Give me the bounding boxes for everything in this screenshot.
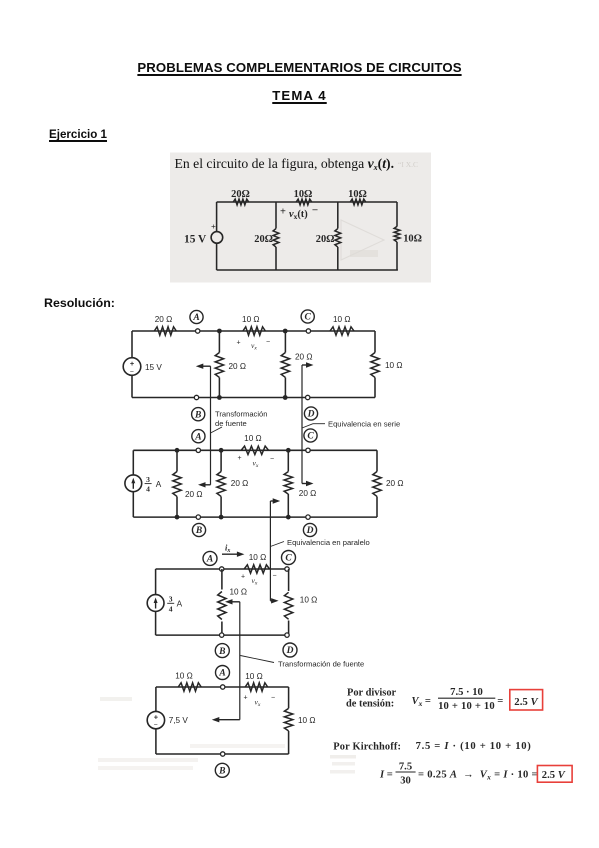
svg-text:Transformación de fuente: Transformación de fuente [278,660,364,669]
svg-text:20Ω: 20Ω [254,234,273,245]
junction dots x288 c2 [286,448,291,453]
svg-text:10 Ω: 10 Ω [245,672,263,681]
junction dots c1 bottom [217,395,222,400]
svg-text:C: C [307,432,314,442]
node label C between c1-c2 [304,429,317,442]
arrow left c4 [216,719,240,721]
svg-text:D: D [306,526,314,536]
svg-text:Equivalencia en serie: Equivalencia en serie [328,419,400,428]
wire stub v-res2 c1 [284,331,286,353]
resistor 20ohm top-left (statement) [233,199,249,205]
svg-text:+: + [241,574,245,581]
arrow ix c3 [222,553,241,555]
svg-text:vx(t): vx(t) [289,209,308,221]
circuit4 bottom wire [156,753,289,755]
svg-text:20Ω: 20Ω [231,189,250,200]
ghost text left of equations [330,755,356,759]
svg-text:B: B [195,526,202,536]
resistor 20ohm vertical-2 c1 [281,353,289,378]
svg-text:4: 4 [169,604,173,613]
node B open circle c1 bottom [194,395,198,399]
connector line c3-c4 [239,602,241,720]
wire: statement top [217,201,397,203]
svg-text:3: 3 [146,475,150,484]
svg-text:+: + [130,359,135,368]
text Equivalencia en paralelo [270,542,284,547]
wire: statement left [216,202,218,232]
svg-text:20 Ω: 20 Ω [155,315,173,324]
svg-text:vx: vx [252,576,258,586]
svg-text:10 + 10 + 10: 10 + 10 + 10 [438,701,495,712]
wire stubs vres x221 c2 [220,450,222,471]
node label A c1 [190,310,203,323]
resistor R 20ohm top-left c1 [154,327,176,335]
junction dots x177 c2 [175,448,180,453]
wire stubs vres x177 c2 [176,450,178,471]
svg-text:A: A [192,313,199,323]
wire stubs vres x288 c2 [287,450,289,471]
resistor 10ohm top c3 [244,565,269,573]
svg-text:20 Ω: 20 Ω [295,353,313,362]
wire: statement bottom [217,269,398,271]
node A open circle c1 top [196,329,200,333]
svg-text:10 Ω: 10 Ω [244,434,262,443]
svg-text:−: − [266,339,270,346]
svg-text:20 Ω: 20 Ω [231,479,249,488]
connector line c2-c3 [269,501,271,601]
resistor 20ohm right c2 [373,472,381,497]
resistor 10ohm right c4 [284,708,292,730]
node label B below c2 [192,523,205,536]
node label A above c3 [203,551,217,565]
svg-text:10Ω: 10Ω [348,189,367,200]
red box answer 2 [537,766,572,783]
svg-text:10Ω: 10Ω [403,234,422,245]
red box answer 1 [510,690,543,710]
problem statement figure background [170,153,431,283]
node label B between c1-c2 [192,408,205,421]
svg-text:7.5 · 10: 7.5 · 10 [450,687,483,698]
svg-text:C: C [305,313,312,323]
leader to de fuente [211,427,223,433]
current source 3/4 A c3 [147,595,164,612]
arrow left c2 [202,484,211,486]
svg-text:vx: vx [255,698,261,708]
svg-text:10 Ω: 10 Ω [230,587,248,596]
junction dot c1 top x219 [217,329,222,334]
svg-text:7.5 = I · (10 + 10 + 10): 7.5 = I · (10 + 10 + 10) [416,741,532,752]
circuit1 right wire [374,331,376,353]
svg-text:D: D [286,646,294,656]
wire: statement right [396,202,398,227]
svg-text:vx: vx [253,459,259,469]
svg-text:3: 3 [169,595,173,604]
svg-text:Por divisor: Por divisor [347,688,397,699]
svg-text:+: + [211,222,216,232]
svg-text:7,5 V: 7,5 V [169,716,189,725]
arrow left c3 (source transformation) [229,601,240,603]
connector line right c1-c2 [301,365,303,484]
resistor 20ohm v1 c2 [173,472,181,497]
svg-text:+: + [154,713,159,722]
svg-text:−: − [130,368,134,375]
svg-text:Por Kirchhoff:: Por Kirchhoff: [333,741,401,752]
svg-text:15 V: 15 V [145,363,162,372]
svg-text:−: − [270,456,274,463]
svg-text:=: = [497,696,503,707]
node open circles x198 c2 [196,448,200,452]
resistor 10ohm top c2 [241,446,269,454]
resistor 10ohm top-mid (statement) [296,199,312,205]
svg-text:D: D [307,410,315,420]
svg-text:B: B [218,767,225,777]
circuit2 right wire [376,450,378,471]
resistor 10ohm right vertical (statement) [394,226,400,242]
svg-text:vx: vx [251,341,257,351]
circuit2 top wire [133,449,377,451]
svg-text:10 Ω: 10 Ω [333,315,351,324]
svg-text:+: + [244,695,248,702]
svg-text:Equivalencia en paralelo: Equivalencia en paralelo [287,538,370,547]
node label D between c1-c2 [304,407,317,420]
resistor 20ohm v3 c2 [284,472,292,494]
circuit3 top wire [156,568,289,570]
voltage source 15V [123,358,141,376]
node label D below c2 [303,523,316,536]
svg-text:Transformación: Transformación [215,409,267,418]
circuit2 left wire [132,450,134,475]
svg-text:En el circuito de la figura, o: En el circuito de la figura, obtenga vx(… [175,156,395,172]
node D open circle c1 bottom [306,395,310,399]
resistor 10ohm top-right c1 [330,327,354,335]
svg-text:de fuente: de fuente [215,419,247,428]
svg-text:–: – [312,205,319,216]
node A open circle c4 top [221,685,225,689]
svg-text:“I X.C: “I X.C [398,160,418,169]
voltage source 7.5V c4 [147,711,164,728]
svg-text:2.5 V: 2.5 V [514,696,538,708]
svg-text:20 Ω: 20 Ω [229,362,247,371]
subtitle TEMA 4 [0,88,599,103]
heading Ejercicio 1 [49,128,107,141]
svg-text:10 Ω: 10 Ω [385,361,403,370]
node label C above c3 [282,551,296,565]
resistor 10ohm top-mid c1 [243,327,265,335]
svg-text:2.5 V: 2.5 V [542,770,566,781]
svg-text:Vx =: Vx = [412,696,431,708]
svg-text:20Ω: 20Ω [316,234,335,245]
svg-text:30: 30 [400,775,411,786]
circuit4 right wire [288,687,290,708]
svg-text:15 V: 15 V [184,233,207,245]
svg-text:20 Ω: 20 Ω [299,489,317,498]
svg-text:+: + [280,207,286,218]
wire stubs vres mid c3 [221,569,223,590]
circuit3 bottom wire [156,634,289,636]
svg-text:10Ω: 10Ω [294,189,313,200]
resistor 10ohm right c3 [284,592,292,619]
text Equivalencia en serie [302,424,313,428]
svg-text:10 Ω: 10 Ω [298,716,316,725]
svg-text:−: − [273,573,277,580]
resistor 10ohm vertical-mid c3 [218,592,226,620]
node label A above c4 [216,666,230,680]
svg-text:7.5: 7.5 [399,761,412,772]
node A open circle c3 top [220,567,224,571]
arrow right c3 [270,600,275,602]
svg-text:B: B [218,647,225,657]
resistor 10ohm top-right c4 [245,683,267,691]
circuit4 top wire [156,686,289,688]
circuit2 bottom wire [133,516,377,518]
arrow right c1 (series equivalence) [302,364,310,366]
junction dot c1 top x285 [283,329,288,334]
resistor 10ohm right c1 [371,353,379,378]
resistor 20ohm vertical-1 c1 [215,353,223,378]
svg-text:A: A [177,600,183,609]
svg-text:A: A [156,480,162,489]
svg-text:10 Ω: 10 Ω [242,315,260,324]
source VS 15V (statement) [211,232,223,244]
svg-text:B: B [194,410,201,420]
node label A between c1-c2 [192,430,205,443]
circuit1 left wire [131,331,133,358]
node C open circle c3 top [285,567,289,571]
svg-text:ix: ix [225,544,230,555]
node label C c1 [301,310,314,323]
svg-text:10 Ω: 10 Ω [300,596,318,605]
resistor 10ohm top-left c4 [178,683,201,691]
heading Resolucion [44,296,115,310]
node C open circle c1 top [306,329,310,333]
node label B below c4 [215,763,229,777]
svg-text:20 Ω: 20 Ω [386,479,404,488]
svg-text:de tensión:: de tensión: [346,699,394,710]
current source 3/4 A c2 [125,475,142,492]
circuit3 left wire [155,569,157,595]
circuit1 bottom wire [132,397,375,399]
resistor 20ohm mid-left vertical (statement) [273,229,279,247]
svg-text:I =: I = [379,769,393,780]
svg-text:10 Ω: 10 Ω [249,553,267,562]
circuit3 right wire [288,569,290,591]
circuit4 left wire [155,687,157,712]
arrow right c2 lower (parallel equivalence) [270,500,276,502]
svg-text:20 Ω: 20 Ω [185,490,203,499]
svg-text:−: − [154,722,158,729]
node wire mid-left vertical (statement) [275,202,277,229]
node label B below c3 [215,644,229,658]
svg-text:4: 4 [146,485,150,494]
svg-text:A: A [218,669,225,679]
ghost op-amp triangle (scan bleed) [341,220,384,260]
node label D below c3 [283,643,297,657]
node open circles c3 bottom [220,633,224,637]
svg-text:A: A [206,555,213,565]
node open circles x308 c2 [306,448,310,452]
resistor 20ohm v2 c2 [217,472,225,497]
text Transformacion de fuente c3 [240,656,274,663]
connector line left c1-c2 [210,366,212,485]
svg-text:+: + [238,455,242,462]
wire stub v-res1 c1 [218,331,220,353]
arrow right c2 inner [302,483,310,485]
svg-text:+: + [237,340,241,347]
circuit1 top wire [132,330,375,332]
wire mid-right vertical (statement) [337,202,339,229]
svg-text:A: A [194,432,201,442]
svg-text:−: − [271,695,275,702]
resistor 10ohm top-right (statement) [350,199,366,205]
svg-text:= 0.25 A → Vx = I · 10 =: = 0.25 A → Vx = I · 10 = [418,769,538,781]
resistor 20ohm mid-right vertical (statement) [335,229,341,247]
title heading [0,60,599,75]
node B open circle c4 bottom [221,752,225,756]
svg-text:10 Ω: 10 Ω [175,672,193,681]
junction dots x221 c2 [219,448,224,453]
svg-text:C: C [285,554,292,564]
arrow left c1 (source transformation) [200,365,211,367]
ghost text bottom-left circuit4 [100,697,132,701]
